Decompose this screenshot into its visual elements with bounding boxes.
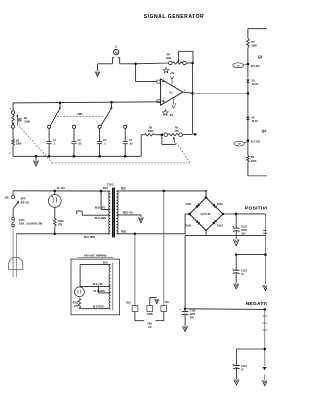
svg-text:56-56: 56-56 — [252, 120, 259, 123]
svg-text:BLK: BLK — [103, 187, 108, 190]
svg-text:.05: .05 — [78, 143, 82, 146]
svg-text:R102: R102 — [58, 220, 65, 223]
svg-text:30V: 30V — [190, 316, 195, 319]
svg-text:PL 101: PL 101 — [57, 187, 66, 190]
svg-text:RED: RED — [121, 231, 126, 234]
svg-text:D103: D103 — [217, 225, 223, 228]
svg-text:BLK-YEL: BLK-YEL — [93, 283, 104, 286]
svg-text:+: + — [179, 308, 181, 312]
svg-text:1000: 1000 — [166, 57, 172, 60]
svg-text:OFF: OFF — [21, 198, 26, 201]
svg-text:27K: 27K — [74, 306, 79, 308]
svg-text:3300: 3300 — [251, 160, 257, 163]
svg-text:SIGNAL GENERATOR: SIGNAL GENERATOR — [144, 14, 204, 20]
svg-text:RED: RED — [121, 188, 126, 191]
svg-text:ON: ON — [5, 195, 9, 199]
svg-text:(4) 57-65: (4) 57-65 — [200, 213, 211, 216]
svg-text:BLK-RED: BLK-RED — [93, 306, 104, 309]
svg-text:POSITIVE: POSITIVE — [245, 206, 267, 212]
svg-text:3300: 3300 — [148, 130, 154, 133]
svg-text:30V: 30V — [241, 232, 246, 235]
svg-text:BLK-GRN: BLK-GRN — [94, 290, 105, 293]
svg-text:SW 101: SW 101 — [21, 202, 31, 205]
svg-text:Q1: Q1 — [258, 55, 263, 59]
svg-text:27K: 27K — [58, 224, 63, 227]
svg-text:240 VAC WIRING: 240 VAC WIRING — [84, 254, 108, 258]
svg-text:BLU: BLU — [126, 302, 131, 305]
svg-text:3300: 3300 — [251, 44, 257, 47]
svg-text:D101: D101 — [186, 203, 192, 206]
svg-text:BLK-RED: BLK-RED — [84, 236, 95, 239]
svg-text:T101: T101 — [107, 183, 114, 187]
svg-text:56-56: 56-56 — [252, 83, 259, 86]
svg-text:BLK-YEL: BLK-YEL — [95, 206, 106, 209]
svg-text:R102: R102 — [73, 302, 79, 304]
svg-text:RED-YEL: RED-YEL — [123, 211, 134, 214]
svg-text:D102: D102 — [217, 203, 223, 206]
svg-text:-6V: -6V — [169, 114, 173, 117]
svg-text:NEGATIVE: NEGATIVE — [246, 301, 267, 307]
svg-text:36V: 36V — [147, 321, 152, 325]
svg-text:BLK-GRN: BLK-GRN — [95, 217, 107, 220]
svg-text:+6V: +6V — [170, 72, 175, 75]
svg-text:Q2: Q2 — [262, 129, 267, 133]
svg-text:GND: GND — [147, 312, 153, 316]
svg-text:YEL: YEL — [165, 301, 170, 304]
svg-text:1/8A , SLOW-BLOW: 1/8A , SLOW-BLOW — [19, 223, 43, 226]
svg-text:AC: AC — [148, 325, 152, 329]
svg-text:3300: 3300 — [16, 143, 22, 146]
svg-text:F101: F101 — [19, 219, 25, 222]
svg-text:SW1: SW1 — [77, 113, 83, 116]
svg-text:417-235: 417-235 — [251, 141, 261, 144]
svg-text:417-801: 417-801 — [251, 65, 261, 68]
svg-text:BLK: BLK — [103, 262, 108, 265]
svg-text:100K: 100K — [24, 121, 30, 124]
svg-text:500: 500 — [175, 130, 180, 133]
svg-text:D104: D104 — [185, 225, 191, 228]
svg-text:.05: .05 — [129, 143, 133, 146]
